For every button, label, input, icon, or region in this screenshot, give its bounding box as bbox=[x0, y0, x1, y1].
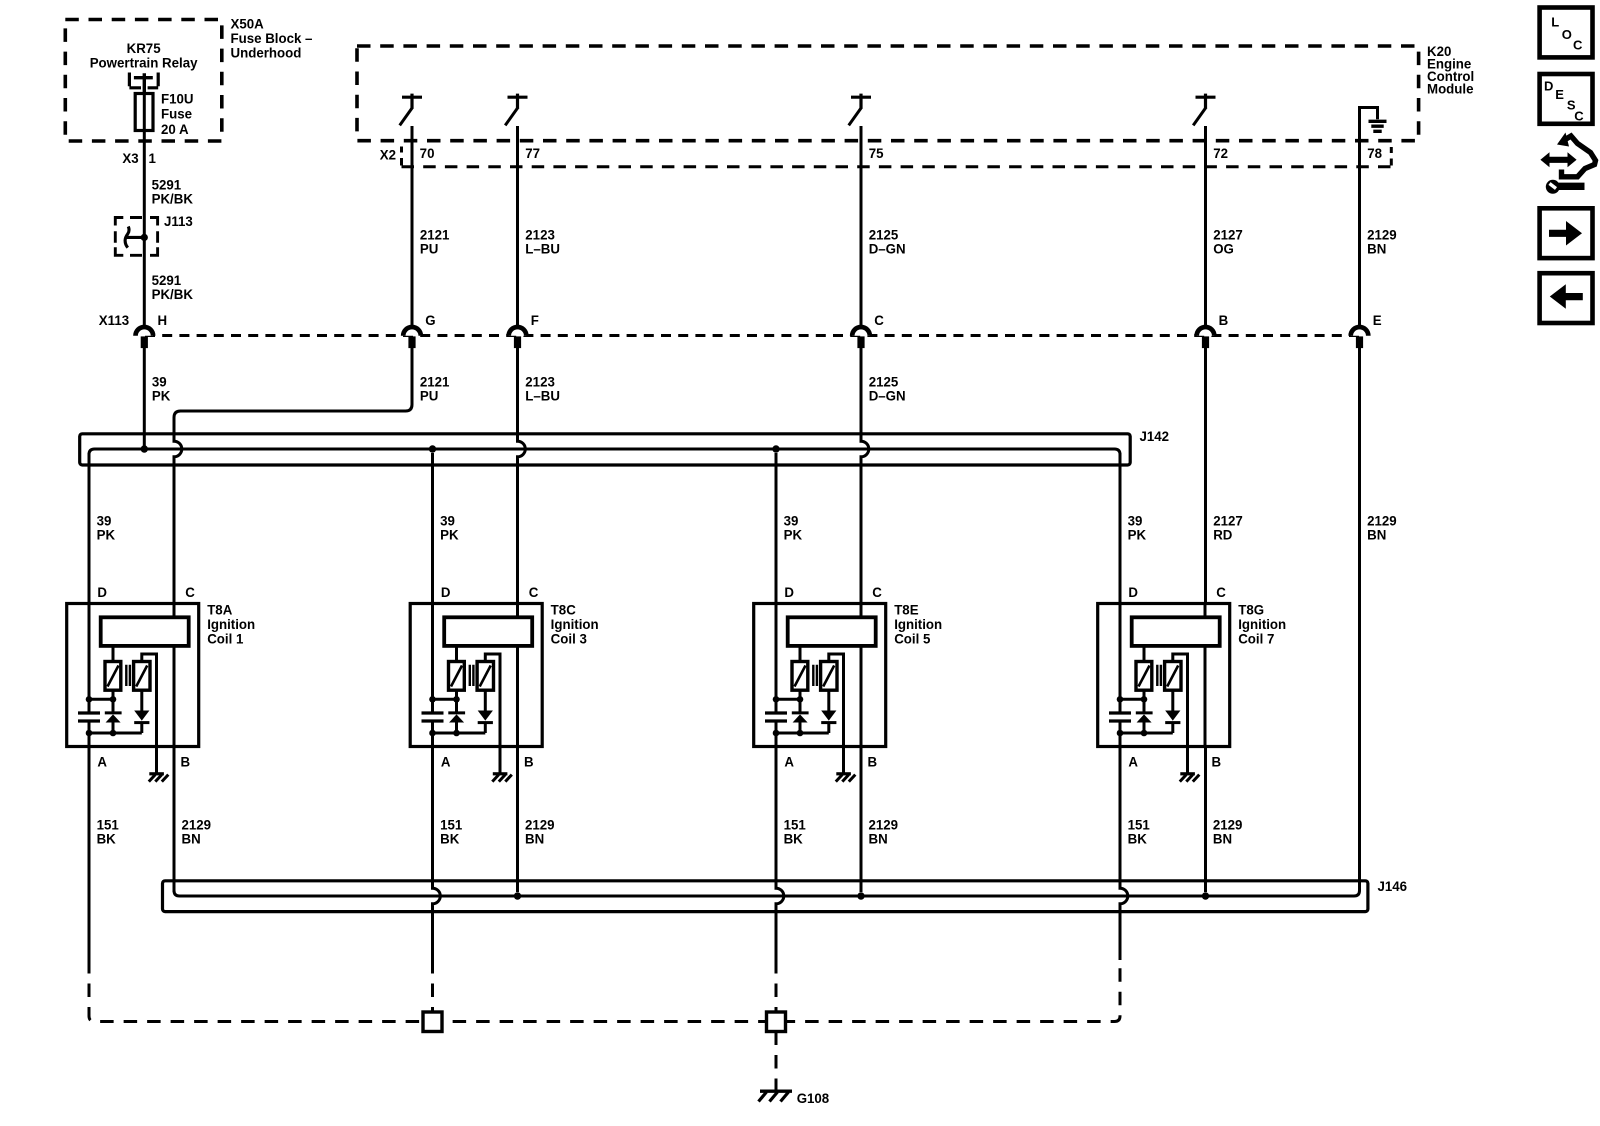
splice pack J142 bus line bbox=[89, 449, 1120, 458]
label wire 2125 D-GN mid bbox=[869, 374, 906, 404]
svg-text:2121: 2121 bbox=[420, 374, 450, 389]
svg-text:BN: BN bbox=[869, 831, 888, 846]
label X50A Fuse Block Underhood bbox=[231, 16, 313, 61]
svg-text:D: D bbox=[1128, 584, 1138, 599]
label 5291 PK/BK upper bbox=[152, 177, 193, 207]
ECM driver pin 72 bbox=[1193, 94, 1215, 126]
svg-text:39: 39 bbox=[152, 374, 167, 389]
svg-text:C: C bbox=[1574, 109, 1584, 124]
svg-text:Module: Module bbox=[1427, 81, 1474, 96]
svg-text:Ignition: Ignition bbox=[894, 617, 942, 632]
svg-text:Coil 1: Coil 1 bbox=[207, 631, 244, 646]
ECM driver pin 75 bbox=[849, 94, 871, 126]
label coil2 pin B bbox=[524, 754, 534, 769]
coil2 primary low side + diode bbox=[448, 690, 465, 733]
coil3 capacitor on pin D line bbox=[765, 604, 787, 747]
label coil4 pin C bbox=[1216, 584, 1226, 599]
label wire 39 PK coil2 bbox=[440, 513, 459, 543]
coil2 pin B internal wire bbox=[516, 646, 519, 747]
connector X113 pin F bbox=[509, 327, 527, 348]
svg-text:Coil 3: Coil 3 bbox=[551, 631, 588, 646]
svg-text:5291: 5291 bbox=[152, 177, 182, 192]
label pin 70 bbox=[420, 146, 435, 161]
svg-text:BK: BK bbox=[97, 831, 116, 846]
coil4 primary winding bbox=[1136, 646, 1152, 690]
coil2 internal module bbox=[444, 604, 532, 646]
wire 2129 BN X113 E to J146 bbox=[1358, 348, 1361, 890]
svg-text:B: B bbox=[1219, 312, 1229, 327]
coil1 secondary winding bbox=[134, 662, 150, 691]
svg-text:C: C bbox=[872, 584, 882, 599]
svg-text:L–BU: L–BU bbox=[525, 388, 560, 403]
label coil2 pin A bbox=[441, 754, 451, 769]
svg-text:G: G bbox=[425, 312, 435, 327]
wire 2129 BN coil1 B to J146 bbox=[173, 747, 176, 893]
label X2 bbox=[380, 147, 397, 162]
svg-text:Fuse Block –: Fuse Block – bbox=[231, 31, 313, 46]
label coil3 pin A bbox=[784, 754, 794, 769]
coil4 internal ground bbox=[1180, 774, 1200, 782]
coil2 primary winding bbox=[449, 646, 465, 690]
label wire 2121 PU mid bbox=[420, 374, 450, 404]
junction J146 coil2 B bbox=[514, 892, 521, 899]
label wire 2129 BN upper bbox=[1367, 227, 1397, 257]
coil4 primary low side + diode bbox=[1136, 690, 1153, 733]
svg-text:T8C: T8C bbox=[551, 602, 576, 617]
wire 2121 PU X113 G to coil1 C with corner and J142 hop bbox=[174, 348, 412, 604]
wire pin77 to X113 F bbox=[516, 126, 519, 325]
wire 39 PK J142 to coil4 D bbox=[1119, 453, 1122, 604]
coil1 internal ground bbox=[149, 774, 169, 782]
wire 39 PK J142 to coil1 D bbox=[88, 453, 91, 604]
junction J146 coil3 B bbox=[857, 892, 864, 899]
label coil T8C bbox=[551, 602, 599, 646]
coil2 junction row upper bbox=[429, 696, 460, 703]
connector X113 pin E bbox=[1351, 327, 1369, 348]
wire 39 PK X113 H to J142 bbox=[143, 348, 146, 446]
junction J142 at 39PK feed bbox=[141, 445, 148, 452]
svg-text:J146: J146 bbox=[1378, 878, 1408, 893]
ECM internal ground pin 78 bbox=[1360, 108, 1387, 132]
coil3 secondary diode bbox=[821, 690, 836, 733]
label wire 151 BK coil1 bbox=[97, 817, 120, 847]
coil4 capacitor on pin D line bbox=[1109, 604, 1131, 747]
svg-text:151: 151 bbox=[1128, 817, 1151, 832]
label coil2 pin D bbox=[441, 584, 451, 599]
svg-text:BN: BN bbox=[182, 831, 201, 846]
svg-text:RD: RD bbox=[1213, 527, 1232, 542]
wire 151 BK coil1 A down bbox=[88, 747, 91, 961]
coil1 core bbox=[126, 665, 130, 686]
svg-text:Coil 7: Coil 7 bbox=[1238, 631, 1274, 646]
wire from fuse to X3 bbox=[143, 94, 146, 326]
svg-text:2125: 2125 bbox=[869, 227, 899, 242]
coil1 junction row upper bbox=[86, 696, 117, 703]
label G108 bbox=[797, 1091, 830, 1106]
label J142 bbox=[1140, 428, 1170, 443]
svg-text:39: 39 bbox=[784, 513, 799, 528]
label J146 bbox=[1378, 878, 1408, 893]
svg-text:2121: 2121 bbox=[420, 227, 450, 242]
svg-text:BK: BK bbox=[784, 831, 803, 846]
label X3 / 1 bbox=[122, 150, 156, 165]
wire 2123 L-BU X113 F to coil3... coil2 C with J142 hop bbox=[518, 348, 526, 604]
label KR75 Powertrain Relay bbox=[90, 40, 198, 70]
svg-text:C: C bbox=[1573, 37, 1583, 52]
coil2 secondary diode bbox=[478, 690, 493, 733]
label X113 bbox=[99, 312, 130, 327]
svg-text:H: H bbox=[158, 312, 168, 327]
svg-text:B: B bbox=[1212, 754, 1222, 769]
coil1 capacitor on pin D line bbox=[78, 604, 100, 747]
coil4 junction row upper bbox=[1117, 696, 1148, 703]
label coil4 pin A bbox=[1128, 754, 1138, 769]
label wire 39 PK coil4 bbox=[1128, 513, 1147, 543]
label wire 2129 BN right bbox=[1367, 513, 1397, 543]
svg-text:T8G: T8G bbox=[1238, 602, 1264, 617]
svg-text:D: D bbox=[441, 584, 451, 599]
ground G108 bbox=[759, 1091, 793, 1101]
label coil T8A bbox=[207, 602, 255, 646]
label wire 2129 BN coil4 bbox=[1213, 817, 1243, 847]
svg-text:2129: 2129 bbox=[182, 817, 212, 832]
wire 2129 BN coil3 B to J146 bbox=[860, 747, 863, 893]
icon arrow-right bbox=[1540, 208, 1593, 258]
svg-text:L: L bbox=[1551, 15, 1559, 30]
label wire 39 PK mid bbox=[152, 374, 171, 404]
label pin 78 bbox=[1367, 146, 1382, 161]
label wire 2129 BN coil3 bbox=[869, 817, 899, 847]
svg-text:PK: PK bbox=[1128, 527, 1147, 542]
svg-text:151: 151 bbox=[440, 817, 463, 832]
svg-text:PU: PU bbox=[420, 388, 439, 403]
label coil1 pin A bbox=[97, 754, 107, 769]
svg-text:Coil 5: Coil 5 bbox=[894, 631, 931, 646]
ignition coil T8G box bbox=[1098, 604, 1230, 747]
svg-text:L–BU: L–BU bbox=[525, 241, 560, 256]
svg-text:2127: 2127 bbox=[1213, 513, 1243, 528]
svg-text:2125: 2125 bbox=[869, 374, 899, 389]
coil3 secondary HT lead to ground bbox=[829, 654, 844, 774]
fuse F10U bbox=[135, 94, 153, 131]
svg-text:2129: 2129 bbox=[1367, 227, 1397, 242]
icon DESC bbox=[1540, 74, 1593, 124]
label coil4 pin B bbox=[1212, 754, 1222, 769]
splice square S-coil2 bbox=[423, 1012, 442, 1032]
label wire 2129 BN coil1 bbox=[182, 817, 212, 847]
svg-text:PK/BK: PK/BK bbox=[152, 191, 193, 206]
wire pin70 to X113 G bbox=[411, 126, 414, 325]
svg-text:77: 77 bbox=[525, 146, 540, 161]
svg-text:72: 72 bbox=[1213, 146, 1228, 161]
svg-text:39: 39 bbox=[440, 513, 455, 528]
splice pack J146 bus line bbox=[174, 887, 1360, 896]
coil3 secondary winding bbox=[821, 662, 837, 691]
junction J146 coil4 B bbox=[1202, 892, 1209, 899]
label wire 2125 D-GN upper bbox=[869, 227, 906, 257]
svg-text:A: A bbox=[97, 754, 107, 769]
svg-text:75: 75 bbox=[869, 146, 884, 161]
coil1 secondary diode bbox=[134, 690, 149, 733]
label wire 2129 BN coil2 bbox=[525, 817, 555, 847]
label coil3 pin C bbox=[872, 584, 882, 599]
label 5291 PK/BK lower bbox=[152, 273, 193, 303]
svg-text:2129: 2129 bbox=[1367, 513, 1397, 528]
label X113 pin G bbox=[425, 312, 435, 327]
connector X113 pin B bbox=[1197, 327, 1215, 348]
svg-text:Ignition: Ignition bbox=[1238, 617, 1286, 632]
svg-text:E: E bbox=[1555, 87, 1564, 102]
label J113 bbox=[164, 214, 193, 229]
svg-text:X113: X113 bbox=[99, 312, 130, 327]
wire 39 PK J142 to coil2 D bbox=[431, 453, 434, 604]
svg-text:BN: BN bbox=[525, 831, 544, 846]
wire 151 BK coil4 A below box with J146 hop bbox=[1120, 747, 1128, 961]
ECM K20 box bbox=[357, 46, 1419, 141]
label coil3 pin B bbox=[868, 754, 878, 769]
connector X113 pin C bbox=[852, 327, 870, 348]
svg-text:B: B bbox=[524, 754, 534, 769]
label X113 pin H bbox=[158, 312, 168, 327]
coil4 internal module bbox=[1132, 604, 1220, 646]
wire 2129 BN coil4 B to J146 bbox=[1204, 747, 1207, 893]
svg-text:G108: G108 bbox=[797, 1091, 830, 1106]
label coil T8G bbox=[1238, 602, 1286, 646]
coil3 junction row upper bbox=[773, 696, 804, 703]
svg-text:A: A bbox=[1128, 754, 1138, 769]
svg-text:2129: 2129 bbox=[869, 817, 899, 832]
svg-text:A: A bbox=[784, 754, 794, 769]
wire 2129 BN coil2 B to J146 bbox=[516, 747, 519, 893]
wire 2125 D-GN X113 C to coil3 C with J142 hop bbox=[861, 348, 869, 604]
svg-text:PU: PU bbox=[420, 241, 439, 256]
splice pack J142 outline bbox=[80, 434, 1131, 465]
coil2 internal ground bbox=[492, 774, 512, 782]
coil2 secondary winding bbox=[477, 662, 493, 691]
svg-text:78: 78 bbox=[1367, 146, 1382, 161]
coil1 secondary HT lead to ground bbox=[142, 654, 157, 774]
svg-text:X2: X2 bbox=[380, 147, 397, 162]
label wire 2121 PU upper bbox=[420, 227, 450, 257]
junction J142 coil2 D bbox=[429, 445, 436, 452]
svg-text:2129: 2129 bbox=[525, 817, 555, 832]
icon swap-tool bbox=[1540, 133, 1595, 194]
svg-text:D: D bbox=[1544, 78, 1553, 93]
svg-text:T8A: T8A bbox=[207, 602, 232, 617]
svg-text:C: C bbox=[185, 584, 195, 599]
svg-text:KR75: KR75 bbox=[127, 40, 161, 55]
svg-text:X3: X3 bbox=[122, 150, 139, 165]
svg-text:F10U: F10U bbox=[161, 91, 194, 106]
coil2 secondary HT lead to ground bbox=[485, 654, 500, 774]
coil1 internal module bbox=[101, 604, 189, 646]
svg-text:151: 151 bbox=[97, 817, 120, 832]
wire pin72 to X113 B bbox=[1204, 126, 1207, 325]
svg-text:X50A: X50A bbox=[231, 16, 264, 31]
svg-text:20 A: 20 A bbox=[161, 122, 189, 137]
coil3 primary winding bbox=[792, 646, 808, 690]
wire pin78 to X113 E bbox=[1358, 130, 1361, 325]
label coil1 pin D bbox=[97, 584, 107, 599]
ECM driver pin 77 bbox=[505, 94, 527, 126]
svg-text:D: D bbox=[97, 584, 107, 599]
label coil4 pin D bbox=[1128, 584, 1138, 599]
fuse block X50A box bbox=[65, 20, 222, 142]
svg-text:D–GN: D–GN bbox=[869, 388, 906, 403]
svg-text:D: D bbox=[784, 584, 794, 599]
coil2 junction row lower bbox=[429, 730, 485, 737]
svg-text:PK: PK bbox=[784, 527, 803, 542]
svg-text:C: C bbox=[529, 584, 539, 599]
ignition coil T8A box bbox=[67, 604, 199, 747]
svg-text:BN: BN bbox=[1367, 241, 1386, 256]
ignition coil T8C box bbox=[410, 604, 542, 747]
label X113 pin B bbox=[1219, 312, 1229, 327]
svg-text:70: 70 bbox=[420, 146, 435, 161]
svg-text:C: C bbox=[1216, 584, 1226, 599]
label X113 pin F bbox=[531, 312, 539, 327]
wire pin75 to X113 C bbox=[860, 126, 863, 325]
connector X2 line bbox=[402, 147, 1392, 167]
label F10U Fuse 20 A bbox=[161, 91, 194, 137]
svg-text:39: 39 bbox=[1128, 513, 1143, 528]
svg-text:BN: BN bbox=[1213, 831, 1232, 846]
coil2 core bbox=[470, 665, 474, 686]
icon LOC bbox=[1540, 8, 1593, 58]
coil2 capacitor on pin D line bbox=[422, 604, 444, 747]
connector X113 pin H bbox=[136, 327, 154, 348]
coil3 junction row lower bbox=[773, 730, 829, 737]
svg-text:J142: J142 bbox=[1140, 428, 1170, 443]
label coil3 pin D bbox=[784, 584, 794, 599]
svg-text:O: O bbox=[1562, 27, 1572, 42]
svg-text:BK: BK bbox=[1128, 831, 1147, 846]
svg-text:PK: PK bbox=[97, 527, 116, 542]
label wire 151 BK coil4 bbox=[1128, 817, 1151, 847]
wire 39 PK J142 to coil3 D bbox=[775, 453, 778, 604]
wire 151 BK coil2 A below box with J146 hop bbox=[433, 747, 441, 961]
svg-text:Fuse: Fuse bbox=[161, 106, 192, 121]
coil4 core bbox=[1157, 665, 1161, 686]
svg-text:2123: 2123 bbox=[525, 374, 555, 389]
svg-text:B: B bbox=[868, 754, 878, 769]
svg-text:2127: 2127 bbox=[1213, 227, 1243, 242]
label coil1 pin B bbox=[181, 754, 191, 769]
coil4 junction row lower bbox=[1117, 730, 1173, 737]
svg-text:2129: 2129 bbox=[1213, 817, 1243, 832]
coil1 primary winding bbox=[105, 646, 121, 690]
svg-text:B: B bbox=[181, 754, 191, 769]
label wire 39 PK coil3 bbox=[784, 513, 803, 543]
svg-text:D–GN: D–GN bbox=[869, 241, 906, 256]
svg-text:A: A bbox=[441, 754, 451, 769]
label K20 Engine Control Module bbox=[1427, 44, 1474, 97]
coil3 internal ground bbox=[836, 774, 856, 782]
label X113 pin C bbox=[874, 312, 884, 327]
label pin 77 bbox=[525, 146, 540, 161]
svg-text:T8E: T8E bbox=[894, 602, 918, 617]
junction J142 coil3 D bbox=[772, 445, 779, 452]
svg-text:Ignition: Ignition bbox=[207, 617, 255, 632]
label wire 151 BK coil3 bbox=[784, 817, 807, 847]
label X113 pin E bbox=[1373, 312, 1382, 327]
wire 151 BK coil3 A below box with J146 hop bbox=[776, 747, 784, 961]
coil4 secondary winding bbox=[1165, 662, 1181, 691]
svg-text:151: 151 bbox=[784, 817, 807, 832]
dashed ground wire network to G108 bbox=[89, 960, 1120, 1090]
svg-text:OG: OG bbox=[1213, 241, 1234, 256]
coil1 pin B internal wire bbox=[173, 646, 176, 747]
icon arrow-left bbox=[1540, 273, 1593, 323]
svg-text:E: E bbox=[1373, 312, 1382, 327]
label coil T8E bbox=[894, 602, 942, 646]
svg-text:F: F bbox=[531, 312, 539, 327]
coil1 junction row lower bbox=[86, 730, 142, 737]
coil4 secondary diode bbox=[1165, 690, 1180, 733]
svg-text:BK: BK bbox=[440, 831, 459, 846]
connector X113 line bbox=[145, 334, 1360, 337]
coil3 internal module bbox=[788, 604, 876, 646]
svg-text:PK/BK: PK/BK bbox=[152, 287, 193, 302]
connector X113 pin G bbox=[403, 327, 421, 348]
svg-text:2123: 2123 bbox=[525, 227, 555, 242]
label wire 39 PK coil1 bbox=[97, 513, 116, 543]
svg-text:39: 39 bbox=[97, 513, 112, 528]
label wire 2123 L-BU mid bbox=[525, 374, 560, 404]
svg-text:PK: PK bbox=[440, 527, 459, 542]
relay KR75 bbox=[129, 73, 158, 94]
label wire 2127 RD coil4 bbox=[1213, 513, 1243, 543]
label pin 72 bbox=[1213, 146, 1228, 161]
label coil1 pin C bbox=[185, 584, 195, 599]
svg-text:J113: J113 bbox=[164, 214, 193, 229]
splice J113 bbox=[115, 218, 157, 256]
coil4 secondary HT lead to ground bbox=[1173, 654, 1188, 774]
splice pack J146 outline bbox=[163, 881, 1368, 912]
svg-text:5291: 5291 bbox=[152, 273, 182, 288]
svg-text:BN: BN bbox=[1367, 527, 1386, 542]
coil4 pin B internal wire bbox=[1204, 646, 1207, 747]
splice square S-coil3 bbox=[767, 1012, 786, 1032]
svg-text:1: 1 bbox=[149, 150, 157, 165]
ECM driver pin 70 bbox=[400, 94, 422, 126]
coil3 primary low side + diode bbox=[792, 690, 809, 733]
svg-text:C: C bbox=[874, 312, 884, 327]
coil3 core bbox=[813, 665, 817, 686]
label wire 2123 L-BU upper bbox=[525, 227, 560, 257]
label wire 2127 OG upper bbox=[1213, 227, 1243, 257]
coil1 primary low side + diode bbox=[105, 690, 122, 733]
svg-text:Ignition: Ignition bbox=[551, 617, 599, 632]
label wire 151 BK coil2 bbox=[440, 817, 463, 847]
ignition coil T8E box bbox=[754, 604, 886, 747]
svg-text:Powertrain Relay: Powertrain Relay bbox=[90, 55, 198, 70]
label coil2 pin C bbox=[529, 584, 539, 599]
wire 2127 RD X113 B to coil4 C bbox=[1204, 348, 1207, 604]
svg-text:PK: PK bbox=[152, 388, 171, 403]
svg-text:Underhood: Underhood bbox=[231, 45, 302, 60]
label pin 75 bbox=[869, 146, 884, 161]
coil3 pin B internal wire bbox=[860, 646, 863, 747]
